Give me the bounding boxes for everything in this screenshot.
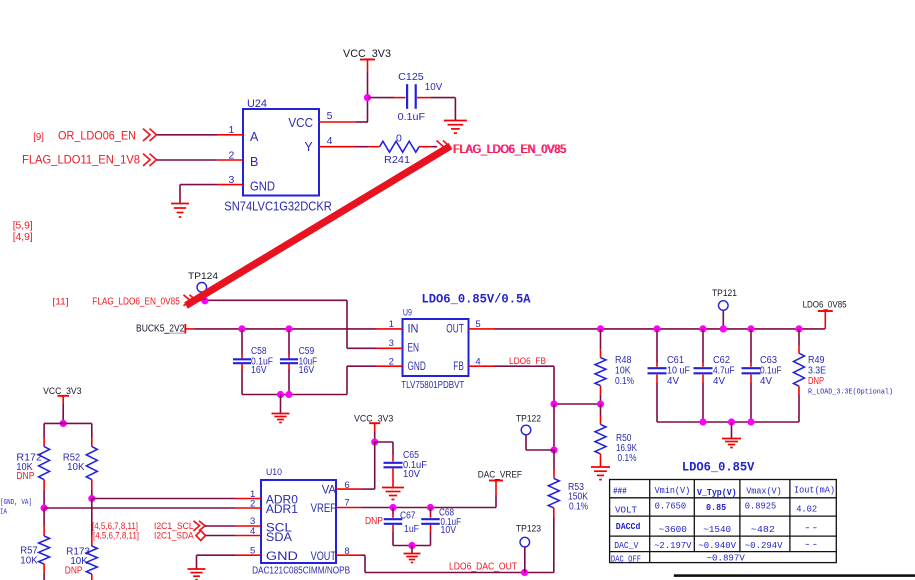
- power flag DAC_VREF: [495, 495, 497, 508]
- svg-text:0.8925: 0.8925: [745, 502, 776, 512]
- node R49 top: [795, 325, 802, 332]
- wire FLAG to EN: [196, 299, 347, 301]
- svg-text:0.1%: 0.1%: [615, 376, 634, 387]
- svg-text:VREF: VREF: [311, 503, 336, 515]
- node C59 top: [285, 325, 292, 332]
- svg-text:0: 0: [396, 132, 402, 144]
- svg-text:4: 4: [250, 526, 255, 537]
- svg-text:DAC121C085CIMM/NOPB: DAC121C085CIMM/NOPB: [252, 566, 350, 577]
- pin 2 GND: [377, 365, 403, 367]
- node C58 top: [238, 325, 245, 332]
- svg-text:3: 3: [228, 174, 234, 186]
- ground (C67 C68): [404, 553, 421, 555]
- svg-text:A: A: [250, 130, 259, 144]
- ground (U10): [188, 568, 206, 570]
- wire EN drop: [346, 300, 348, 348]
- wire ADR0: [92, 498, 235, 500]
- svg-text:R_LOAD_3.3E(Optional): R_LOAD_3.3E(Optional): [808, 388, 893, 396]
- svg-text:[GND, VA]: [GND, VA]: [0, 499, 32, 507]
- svg-text:LDO6_0.85V/0.5A: LDO6_0.85V/0.5A: [422, 293, 531, 307]
- resistor R49: [798, 329, 800, 345]
- wire ADR1: [44, 507, 235, 509]
- wire VREF net: [362, 507, 496, 509]
- svg-text:4: 4: [327, 135, 333, 147]
- ground (caps): [731, 422, 733, 438]
- resistor R241: [380, 141, 420, 152]
- node C63 bottom: [747, 418, 754, 425]
- svg-text:5: 5: [475, 319, 480, 330]
- svg-text:[4,5,6,7,8,11]: [4,5,6,7,8,11]: [93, 530, 139, 540]
- svg-text:[5,9]: [5,9]: [13, 220, 33, 232]
- pin 6 VA: [336, 488, 362, 490]
- wire caps bottom: [393, 545, 431, 547]
- svg-text:2: 2: [250, 499, 255, 510]
- svg-text:LDO6_FB: LDO6_FB: [509, 356, 546, 366]
- node TP123 junction: [521, 569, 528, 576]
- svg-text:8: 8: [344, 546, 349, 557]
- svg-text:0.1%: 0.1%: [569, 501, 588, 512]
- resistor R48: [600, 329, 602, 349]
- wire BUCK5_2V2 to U9 IN: [195, 328, 377, 330]
- svg-text:FLAG_LDO6_EN_0V85: FLAG_LDO6_EN_0V85: [92, 296, 180, 308]
- svg-text:0.1uF: 0.1uF: [398, 111, 426, 123]
- svg-text:OUT: OUT: [446, 324, 464, 336]
- svg-text:4V: 4V: [713, 376, 725, 387]
- resistor R52: [91, 423, 93, 437]
- wire R52 col down: [91, 499, 93, 536]
- svg-text:TP123: TP123: [516, 524, 541, 534]
- svg-text:Vmin(V): Vmin(V): [655, 486, 691, 496]
- pin 1 A: [217, 134, 243, 136]
- resistor R53: [553, 450, 555, 470]
- svg-text:LDO6_0V85: LDO6_0V85: [803, 300, 847, 310]
- svg-text:IN: IN: [408, 324, 419, 336]
- svg-text:0.7650: 0.7650: [655, 502, 687, 512]
- node R48 bottom: [597, 400, 604, 407]
- svg-text:TP122: TP122: [516, 413, 541, 423]
- svg-text:~0.897V: ~0.897V: [707, 554, 746, 564]
- svg-text:16V: 16V: [299, 365, 315, 376]
- node C59 bottom: [285, 391, 292, 398]
- svg-text:0.1uF: 0.1uF: [760, 366, 782, 377]
- svg-text:GND: GND: [250, 179, 275, 193]
- pin 2 ADR1: [235, 507, 261, 509]
- svg-text:DNP: DNP: [65, 565, 83, 576]
- svg-text:VA: VA: [322, 484, 337, 496]
- svg-text:5: 5: [250, 545, 255, 556]
- resistor R173: [91, 535, 93, 546]
- svg-text:10 uF: 10 uF: [667, 366, 690, 377]
- op-amp U24 body: [243, 109, 319, 196]
- svg-text:TP124: TP124: [188, 271, 218, 281]
- svg-text:1: 1: [389, 319, 394, 330]
- svg-text:DNP: DNP: [16, 471, 34, 482]
- svg-text:10V: 10V: [441, 525, 457, 536]
- svg-text:TP121: TP121: [712, 288, 737, 298]
- wire C58 drop: [241, 329, 243, 355]
- pin 5 VCC: [319, 121, 356, 123]
- svg-text:DACCd: DACCd: [616, 522, 641, 532]
- svg-text:C62: C62: [713, 355, 730, 366]
- svg-text:DNP: DNP: [365, 516, 383, 527]
- ground (U24): [171, 203, 189, 205]
- ground (C125): [444, 120, 467, 122]
- output flag FLAG_LDO6_EN_0V85 (top): [443, 141, 450, 153]
- svg-text:--: --: [804, 524, 819, 534]
- resistor R172: [43, 423, 45, 437]
- sheet border line: [674, 574, 915, 577]
- svg-text:2: 2: [228, 150, 234, 162]
- resistor R50: [600, 404, 602, 416]
- svg-text:BUCK5_2V2: BUCK5_2V2: [136, 324, 185, 335]
- svg-text:16V: 16V: [251, 365, 267, 376]
- svg-text:VCC_3V3: VCC_3V3: [343, 48, 391, 60]
- svg-text:1: 1: [228, 124, 234, 136]
- svg-text:[11]: [11]: [52, 296, 68, 306]
- svg-text:SN74LVC1G32DCKR: SN74LVC1G32DCKR: [224, 200, 331, 214]
- svg-text:C125: C125: [398, 71, 424, 83]
- svg-text:~0.940V: ~0.940V: [698, 541, 736, 551]
- svg-text:V_Typ(V): V_Typ(V): [697, 487, 737, 498]
- svg-text:DAC_VREF: DAC_VREF: [478, 470, 522, 480]
- ground (C65): [382, 487, 404, 489]
- wire caps bottom rail: [657, 421, 799, 423]
- svg-text:~3600: ~3600: [659, 525, 687, 535]
- node VA junction: [371, 438, 378, 445]
- node C61 top: [653, 325, 660, 332]
- capacitor C67: [392, 508, 394, 515]
- svg-text:IA: IA: [0, 509, 8, 517]
- svg-text:3.3E: 3.3E: [808, 366, 826, 377]
- svg-text:C61: C61: [667, 355, 684, 366]
- wire U10 GND to ground: [197, 554, 236, 556]
- pin 4 Y: [319, 146, 355, 148]
- node gnd drop 2: [728, 418, 735, 425]
- svg-text:Vmax(V): Vmax(V): [746, 487, 782, 497]
- wire OUT rail: [495, 328, 826, 330]
- node gnd drop: [277, 391, 284, 398]
- pin 7 VREF: [336, 507, 362, 509]
- svg-text:I2C1_SDA: I2C1_SDA: [154, 530, 194, 540]
- capacitor C125: [406, 84, 408, 109]
- svg-text:4: 4: [475, 357, 480, 368]
- node TP121: [720, 325, 727, 332]
- wire to C125: [368, 97, 395, 99]
- capacitor C63: [750, 329, 752, 363]
- DAC U10 body: [261, 480, 336, 563]
- svg-text:10K: 10K: [20, 556, 38, 567]
- svg-text:[9]: [9]: [33, 131, 44, 143]
- wire SDA: [206, 535, 236, 537]
- regulator U9 body: [403, 319, 469, 376]
- wire C125 to ground: [417, 97, 431, 99]
- wire SCL: [205, 525, 235, 527]
- pin 4 SDA: [235, 535, 261, 537]
- pin 4 FB: [469, 365, 495, 367]
- wire C59 drop: [288, 329, 290, 355]
- svg-text:FLAG_LDO11_EN_1V8: FLAG_LDO11_EN_1V8: [22, 155, 140, 167]
- ground (R50): [591, 466, 610, 468]
- wire FLAG_LDO11_EN_1V8 to pin 2: [157, 159, 217, 161]
- pin 1 IN: [377, 328, 403, 330]
- svg-text:0.85: 0.85: [706, 502, 726, 513]
- wire C65 to ground: [392, 469, 394, 488]
- node C62 bottom: [699, 418, 706, 425]
- wire U24 GND pin to ground: [180, 184, 217, 186]
- svg-text:Iout(mA): Iout(mA): [794, 485, 835, 495]
- wire divider top: [44, 422, 92, 424]
- capacitor C61: [656, 329, 658, 363]
- svg-text:GND: GND: [408, 361, 426, 373]
- pin 5 GND: [235, 554, 261, 556]
- svg-text:4V: 4V: [667, 376, 679, 387]
- svg-text:DNP: DNP: [808, 376, 824, 387]
- svg-text:OR_LDO06_EN: OR_LDO06_EN: [58, 131, 136, 143]
- capacitor C62: [702, 329, 704, 363]
- svg-text:B: B: [250, 155, 258, 169]
- svg-text:VOUT: VOUT: [311, 551, 336, 563]
- wire VOUT net LDO6_DAC_OUT: [362, 554, 365, 556]
- node VCC junction dot: [364, 94, 371, 101]
- svg-text:VCC_3V3: VCC_3V3: [354, 414, 393, 424]
- node R48 top: [597, 325, 604, 332]
- svg-text:SDA: SDA: [266, 532, 292, 544]
- svg-text:###: ###: [613, 487, 627, 497]
- svg-text:U10: U10: [266, 467, 282, 478]
- svg-text:5: 5: [327, 110, 333, 122]
- svg-text:~2.197V: ~2.197V: [654, 541, 692, 551]
- svg-text:VOLT: VOLT: [615, 505, 638, 515]
- wire C59 bottom rail: [288, 364, 290, 370]
- capacitor C58: [233, 358, 251, 360]
- pin 3 EN: [377, 347, 403, 349]
- svg-text:10V: 10V: [425, 81, 443, 93]
- wire OR_LDO06_EN to pin 1: [157, 134, 217, 136]
- svg-text:FB: FB: [453, 361, 464, 373]
- svg-text:10K: 10K: [67, 462, 85, 473]
- wire R172 col down: [43, 508, 45, 526]
- node TP124 junction: [201, 297, 208, 304]
- node R172/ADR1: [41, 504, 48, 511]
- svg-text:3: 3: [389, 338, 394, 349]
- svg-text:VCC_3V3: VCC_3V3: [43, 386, 81, 396]
- svg-text:FLAG_LDO6_EN_0V85: FLAG_LDO6_EN_0V85: [453, 142, 566, 156]
- svg-text:U9: U9: [403, 308, 412, 319]
- node C68 top: [427, 504, 434, 511]
- svg-text:LDO6_DAC_OUT: LDO6_DAC_OUT: [449, 561, 517, 573]
- svg-text:TLV75801PDBVT: TLV75801PDBVT: [401, 379, 464, 391]
- svg-text:R48: R48: [615, 355, 632, 366]
- node VCC_3V3 junction: [60, 420, 67, 427]
- wire FB to R53/TP122: [553, 404, 555, 450]
- svg-text:ADR1: ADR1: [266, 504, 298, 516]
- pin 1 ADR0: [235, 498, 261, 500]
- svg-text:--: --: [804, 540, 819, 550]
- node TP122 junction: [550, 446, 557, 453]
- svg-text:DAC_V: DAC_V: [614, 541, 639, 551]
- svg-text:~0.294V: ~0.294V: [745, 541, 783, 551]
- wire VA net: [362, 488, 375, 490]
- pin 3 GND: [217, 184, 243, 186]
- off-page connector underline: [164, 332, 185, 334]
- svg-text:4.7uF: 4.7uF: [713, 366, 735, 377]
- svg-text:6: 6: [344, 480, 349, 491]
- svg-text:C67: C67: [400, 511, 416, 522]
- svg-text:LDO6_0.85V: LDO6_0.85V: [682, 460, 755, 474]
- svg-text:~482: ~482: [751, 525, 775, 535]
- svg-text:R241: R241: [384, 154, 410, 166]
- svg-text:2: 2: [389, 357, 394, 368]
- wire rail to U9 GND: [346, 366, 348, 394]
- wire R241 to flag: [419, 146, 431, 148]
- resistor R57: [43, 526, 45, 536]
- svg-text:C63: C63: [760, 355, 777, 366]
- svg-text:[4,9]: [4,9]: [13, 231, 33, 243]
- node gnd drop 3: [408, 542, 415, 549]
- node C63 top: [747, 325, 754, 332]
- capacitor C65: [384, 462, 403, 464]
- pin 8 VOUT: [336, 554, 362, 556]
- pin 5 OUT: [469, 328, 495, 330]
- thick red highlight line: [186, 146, 451, 306]
- capacitor C68: [430, 508, 432, 515]
- svg-text:Y: Y: [304, 140, 313, 154]
- svg-text:10V: 10V: [403, 469, 420, 480]
- wire VCC_3V3 to U24 VCC: [367, 72, 369, 122]
- svg-text:10K: 10K: [615, 366, 631, 377]
- pin 2 B: [217, 159, 243, 161]
- node C67 top: [389, 504, 396, 511]
- wire Y to R241: [355, 146, 369, 148]
- wire C58 bottom: [241, 364, 243, 370]
- svg-text:4.02: 4.02: [796, 505, 817, 515]
- svg-text:GND: GND: [266, 551, 298, 563]
- svg-text:~1540: ~1540: [703, 525, 731, 535]
- svg-text:R49: R49: [808, 355, 825, 366]
- svg-text:DAC_OFF: DAC_OFF: [611, 555, 641, 565]
- svg-text:U24: U24: [247, 98, 267, 110]
- wire FB net: [495, 365, 555, 367]
- capacitor C59: [280, 358, 298, 360]
- svg-text:EN: EN: [408, 342, 420, 354]
- svg-text:1uF: 1uF: [404, 524, 419, 535]
- pin 3 SCL: [235, 525, 261, 527]
- table grid: [610, 480, 837, 563]
- node FB corner: [550, 400, 557, 407]
- node R52/ADR0: [88, 495, 95, 502]
- node C62 top: [699, 325, 706, 332]
- svg-text:4V: 4V: [760, 376, 772, 387]
- svg-text:VCC: VCC: [288, 116, 313, 130]
- svg-text:0.1%: 0.1%: [618, 453, 637, 464]
- svg-text:7: 7: [344, 497, 349, 508]
- ground (C58 C59): [280, 395, 282, 414]
